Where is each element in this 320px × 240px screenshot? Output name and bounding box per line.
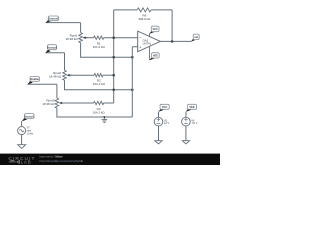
wire op-amp V+ pin stub [149, 33, 151, 36]
watermark bar [0, 154, 220, 165]
svg-text:LM741: LM741 [143, 42, 152, 46]
ground triangle V5 [155, 141, 162, 144]
node ground tap [103, 116, 105, 118]
potentiometer Rpot3 [42, 98, 64, 108]
wire pot3 wiper to R3 [62, 102, 93, 104]
wire R2 to summing node [103, 74, 114, 76]
flag Source2 [45, 45, 57, 53]
wire R3 to summing node riser [104, 102, 114, 104]
node feedback-output junction [171, 40, 174, 43]
potentiometer Rpot1 [66, 33, 88, 43]
ground three-bar [102, 117, 108, 122]
wire V5 bottom [158, 126, 160, 141]
wire V1 bottom [21, 135, 23, 145]
flag Enable [27, 77, 39, 85]
wire V6 bottom [185, 126, 187, 141]
flag Source1 [46, 16, 59, 23]
wire V6 top stub [185, 112, 187, 118]
node R2 junction [112, 74, 115, 77]
svg-text:kammeret / Mixer: kammeret / Mixer [40, 155, 63, 159]
flag VEE rail [186, 104, 197, 112]
wire pot3 bottom ground rail [57, 108, 132, 117]
ground triangle V6 [182, 141, 189, 144]
voltage source V7 sine [18, 127, 34, 136]
op-amp OA2 [138, 31, 161, 52]
wire pot1 wiper to R1 [86, 37, 94, 39]
resistor R3 [93, 101, 106, 114]
node pot1-bottom right junction [131, 56, 134, 59]
svg-text:VEE: VEE [189, 105, 194, 109]
wire pot2 bottom [65, 80, 133, 90]
svg-text:out: out [194, 35, 198, 39]
wire feedback right vertical [171, 10, 173, 42]
resistor R9 [137, 8, 151, 21]
wire output row [160, 40, 191, 42]
voltage source V6 [182, 117, 198, 126]
svg-text:101.0 kΩ: 101.0 kΩ [93, 45, 106, 49]
svg-text:Source1: Source1 [24, 114, 35, 118]
wire row2 input [46, 53, 65, 70]
wire feedback top [114, 9, 172, 11]
svg-text:VCC: VCC [152, 27, 158, 31]
wire pot1 bottom [81, 43, 133, 58]
flag VEE op-amp [149, 53, 159, 61]
svg-text:10 V: 10 V [164, 122, 169, 125]
node R1 summing junction [112, 36, 115, 39]
voltage source V5 [154, 117, 169, 126]
flag V1 source [22, 114, 35, 122]
svg-text:18.48 kΩ: 18.48 kΩ [49, 74, 62, 78]
svg-text:102.4 kΩ: 102.4 kΩ [93, 82, 106, 86]
svg-text:104.2 kΩ: 104.2 kΩ [93, 111, 106, 115]
wire R1 to op-amp inverting input [104, 37, 138, 39]
svg-text:http://circuitlab.com/czrsrv2c: http://circuitlab.com/czrsrv2cpfdb [40, 159, 84, 163]
wire pot2 wiper to R2 [70, 74, 95, 76]
node pot2-bottom left junction [112, 89, 115, 92]
ground triangle V1 [18, 145, 26, 149]
wire row1 input [46, 23, 81, 33]
flag VCC rail [158, 104, 169, 112]
wire summing-node vertical [113, 10, 115, 103]
wire op-amp non-inverting input [132, 47, 137, 117]
svg-text:LAB: LAB [21, 160, 32, 165]
svg-text:-10 V: -10 V [191, 122, 197, 125]
svg-text:VCC: VCC [162, 105, 168, 109]
resistor R1 [93, 36, 106, 49]
potentiometer Rpot2 [49, 70, 72, 80]
svg-text:18.38 kΩ: 18.38 kΩ [42, 102, 55, 106]
svg-text:Source1: Source1 [48, 17, 59, 21]
wire V5 top stub [158, 112, 160, 118]
resistor R2 [93, 74, 106, 87]
node pot2-bottom right junction [131, 89, 134, 92]
wire row3 input [28, 84, 57, 98]
node pot1-bottom left junction [112, 56, 115, 59]
svg-text:18.38 kΩ: 18.38 kΩ [66, 37, 79, 41]
svg-text:Enable: Enable [30, 77, 39, 81]
svg-text:Source2: Source2 [47, 46, 58, 50]
wire V1 top [21, 121, 23, 127]
flag out [191, 34, 199, 42]
wire op-amp V- pin stub [149, 46, 151, 60]
svg-text:399.9 kΩ: 399.9 kΩ [138, 17, 151, 21]
svg-text:1 kHz: 1 kHz [27, 132, 34, 135]
svg-text:VEE: VEE [153, 53, 158, 57]
flag VCC op-amp [149, 26, 159, 34]
